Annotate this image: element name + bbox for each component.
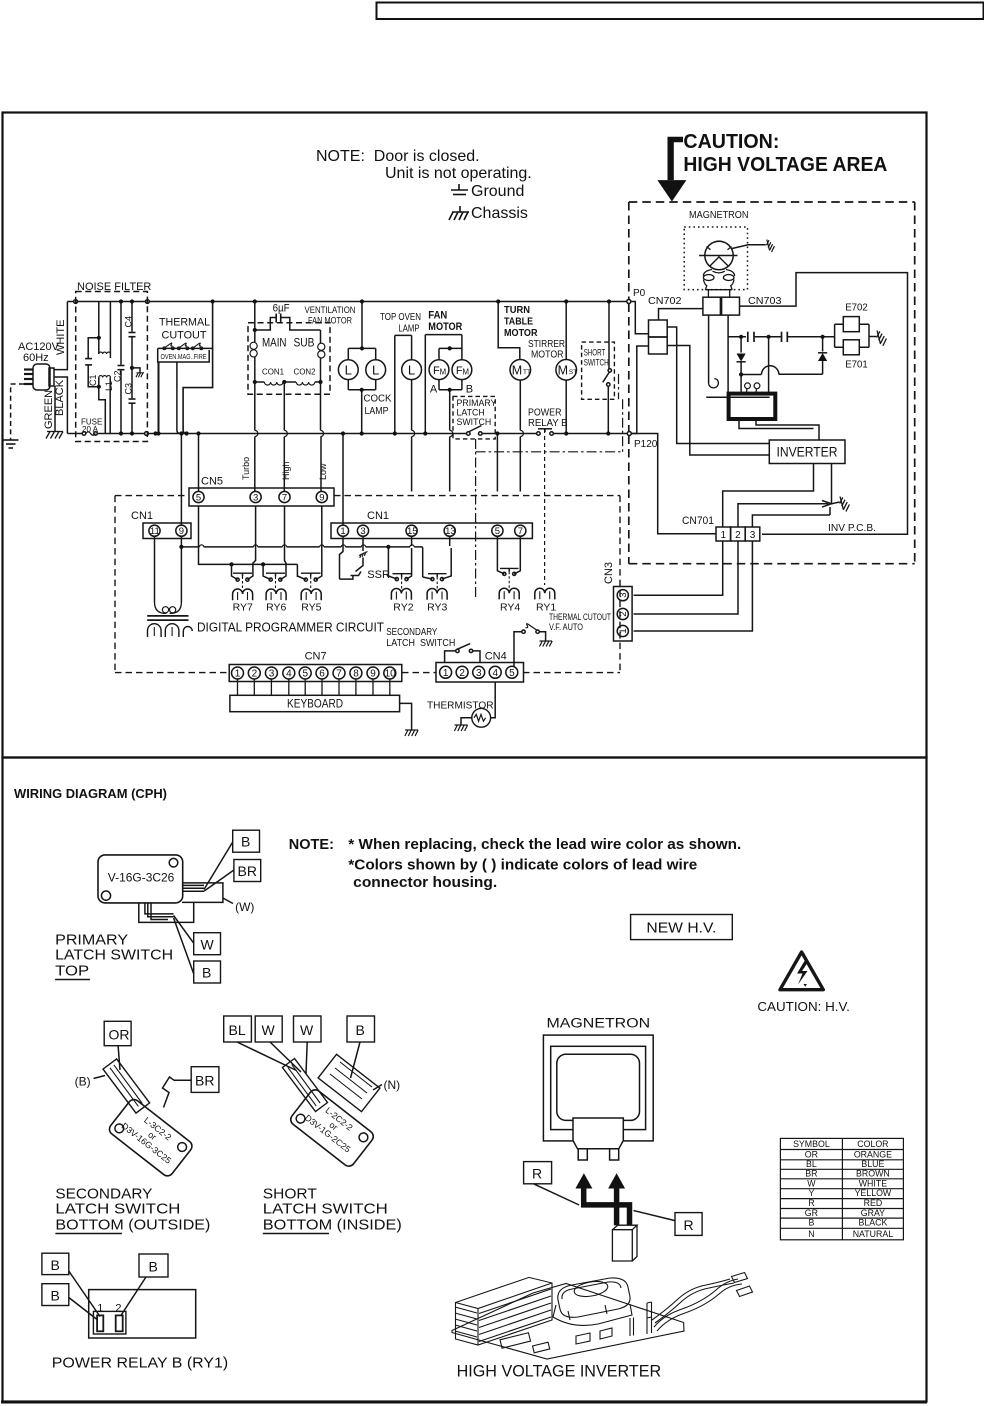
pin 3 [250, 491, 261, 502]
svg-text:VENTILATION: VENTILATION [305, 305, 356, 316]
pin 13 [444, 525, 455, 536]
svg-text:3: 3 [253, 493, 258, 504]
wires CN702 right to inverter [667, 327, 769, 444]
SSR [359, 552, 368, 558]
primary latch switch contacts in series with bus [467, 432, 471, 436]
magnetron outer case [543, 1035, 653, 1141]
lower wire with jump [741, 366, 823, 375]
svg-text:RY2: RY2 [393, 602, 413, 614]
capacitor C1 [98, 302, 100, 338]
pin 7 [515, 525, 526, 536]
capacitor C3 [131, 368, 133, 398]
svg-text:NATURAL: NATURAL [853, 1229, 894, 1239]
noise filter dashed box [76, 292, 148, 442]
wire relay B coil dashed link [544, 429, 546, 585]
wire P0 to CN702 [631, 302, 649, 334]
svg-text:THERMAL: THERMAL [159, 317, 210, 329]
svg-text:BOTTOM (INSIDE): BOTTOM (INSIDE) [263, 1217, 402, 1234]
pin 2 [116, 1315, 123, 1331]
svg-text:3: 3 [618, 593, 629, 598]
svg-text:BL: BL [229, 1022, 246, 1038]
label box W [194, 933, 221, 955]
keyboard ground wire [400, 703, 412, 729]
svg-text:7: 7 [336, 669, 342, 680]
svg-text:OR: OR [805, 1149, 818, 1159]
thick bottom rule [1, 1401, 927, 1404]
top bus [67, 301, 73, 303]
wire connectors [732, 1273, 748, 1283]
svg-text:M: M [512, 364, 522, 378]
output wires [654, 1279, 738, 1327]
pin 10 [384, 667, 396, 679]
svg-text:5: 5 [495, 526, 500, 537]
motor MTT [510, 360, 531, 381]
label box OR [104, 1021, 131, 1045]
svg-text:1: 1 [618, 628, 629, 633]
svg-text:2: 2 [115, 1303, 121, 1315]
svg-text:LAMP: LAMP [365, 405, 389, 417]
short latch switch arm [283, 1059, 328, 1112]
svg-text:P0: P0 [633, 288, 646, 299]
chassis (VF auto) [540, 641, 553, 647]
wire CN703 right to inv pcb right rail [740, 273, 908, 535]
pin 3 [473, 666, 485, 678]
PRIMARY LATCH SWITCH TOP label [55, 932, 173, 980]
relay RY1 coil [535, 588, 555, 599]
pin 2 [248, 667, 260, 679]
svg-text:7: 7 [282, 493, 287, 504]
svg-text:FAN: FAN [428, 310, 447, 322]
label box B (relay 3) [139, 1254, 168, 1277]
connector CON1 [253, 380, 257, 384]
HV transformer (bold box) [729, 394, 776, 419]
AC source label [18, 341, 60, 364]
pin 4 [489, 666, 501, 678]
lamp L (cook 1) [338, 360, 358, 380]
capacitor 6uF [253, 299, 257, 303]
svg-text:W: W [262, 1022, 276, 1038]
svg-text:W: W [300, 1022, 314, 1038]
leader to B [204, 842, 233, 890]
transformer block [558, 1278, 630, 1317]
svg-text:MAGNETRON: MAGNETRON [689, 210, 749, 221]
svg-text:4: 4 [493, 668, 499, 679]
wire CON drops to CN5 with bus jumps [254, 382, 256, 492]
svg-text:L: L [408, 363, 415, 378]
relay RY6 [280, 506, 286, 580]
keyboard ties [238, 679, 390, 695]
wire bus to CN1R pin 1 [342, 434, 344, 526]
PRIMARY LATCH SWITCH dashed box [453, 396, 495, 439]
dashed earth wire from plug [11, 384, 24, 440]
svg-text:B: B [241, 834, 250, 850]
svg-text:5: 5 [509, 668, 515, 679]
svg-text:MAIN: MAIN [262, 336, 287, 350]
svg-text:L: L [345, 363, 352, 378]
pin 7 [333, 667, 345, 679]
black wire [54, 377, 67, 434]
inductor L1 [109, 302, 111, 355]
svg-text:DIGITAL PROGRAMMER CIRCUIT: DIGITAL PROGRAMMER CIRCUIT [197, 621, 384, 635]
svg-text:1: 1 [721, 530, 727, 541]
svg-text:GRAY: GRAY [861, 1208, 885, 1218]
(W) label [223, 898, 233, 904]
label box B (relay 2) [42, 1284, 69, 1306]
AC plug [24, 364, 54, 390]
svg-text:GR: GR [805, 1208, 818, 1218]
thermal cutout body box [158, 348, 213, 362]
SHORT LATCH SWITCH BOTTOM label [263, 1186, 402, 1234]
lamp L (top oven) [402, 360, 422, 380]
svg-text:2: 2 [735, 530, 741, 541]
svg-text:TOP: TOP [55, 963, 89, 980]
svg-text:RED: RED [864, 1198, 883, 1208]
feedthrough E701 [843, 340, 859, 355]
THERMAL CUTOUT label [159, 317, 210, 342]
turn table motor feed [496, 299, 500, 303]
svg-text:M: M [462, 368, 469, 377]
svg-text:LATCH: LATCH [457, 408, 485, 418]
pin 8 [350, 667, 362, 679]
motor MST [556, 360, 577, 381]
svg-text:6µF: 6µF [273, 303, 290, 315]
TOP OVEN LAMP label [380, 311, 421, 335]
magnetron dotted box [684, 227, 747, 290]
diode D2 [822, 337, 824, 352]
svg-text:TURN: TURN [504, 304, 530, 316]
svg-text:B: B [149, 1259, 158, 1275]
svg-text:RY6: RY6 [266, 602, 286, 614]
svg-text:L: L [372, 363, 379, 378]
node P0 [627, 300, 631, 304]
svg-text:COCK: COCK [364, 393, 392, 405]
caution arrow [668, 137, 684, 180]
label box B (bottom) [194, 961, 221, 983]
svg-text:E701: E701 [845, 360, 868, 371]
svg-text:B: B [356, 1022, 365, 1038]
label box R (right) [675, 1213, 702, 1236]
svg-text:ORANGE: ORANGE [854, 1149, 892, 1159]
leader to R right [634, 1211, 676, 1221]
wire CN701-3 up right [752, 515, 830, 527]
relay RY5 [316, 506, 322, 580]
svg-text:CUTOUT: CUTOUT [162, 330, 207, 342]
header box top right [377, 3, 984, 20]
svg-text:2: 2 [252, 669, 258, 680]
stirrer motor feed [564, 299, 568, 303]
leader to B (bottom) [174, 918, 194, 974]
svg-text:C2: C2 [113, 370, 123, 382]
ground legend symbol [451, 184, 468, 195]
wire bus to CN1L pin 9 [180, 434, 182, 526]
svg-text:3: 3 [750, 530, 756, 541]
green wire [54, 386, 56, 432]
secondary latch switch arm [103, 1059, 150, 1113]
svg-text:B: B [466, 384, 473, 396]
SUB winding [320, 330, 322, 343]
pin 5 [492, 525, 503, 536]
SECONDARY LATCH SWITCH BOTTOM label [55, 1186, 210, 1234]
svg-text:2: 2 [618, 611, 629, 616]
svg-text:R: R [808, 1198, 814, 1208]
pin 1 [97, 1315, 103, 1331]
connector CN3 [614, 587, 633, 642]
capacitor C4 [130, 299, 134, 303]
label box W (short 2) [294, 1016, 322, 1042]
svg-text:LAMP: LAMP [399, 323, 420, 335]
magnetron body [557, 1054, 640, 1120]
svg-text:2: 2 [459, 668, 465, 679]
magnetron plug [573, 1118, 623, 1149]
label box BL [224, 1016, 252, 1042]
white wire [54, 302, 67, 370]
svg-text:BR: BR [805, 1169, 817, 1179]
KEYBOARD box [230, 695, 400, 711]
svg-text:SWITCH: SWITCH [457, 417, 492, 427]
node C4/C3 to chassis [130, 366, 134, 370]
pin 2 [617, 608, 628, 619]
svg-text:SWITCH: SWITCH [584, 358, 609, 368]
pin 9 [176, 525, 187, 536]
svg-text:MOTOR: MOTOR [531, 349, 564, 361]
svg-text:OVEN.MAG..FIRE: OVEN.MAG..FIRE [161, 352, 207, 361]
svg-text:C4: C4 [124, 316, 134, 328]
magnetron tube [705, 241, 733, 269]
pin 11 [149, 525, 160, 536]
svg-text:FAN MOTOR: FAN MOTOR [308, 316, 352, 327]
fan motor bracket [425, 335, 462, 360]
svg-text:W: W [807, 1178, 816, 1188]
svg-text:10: 10 [385, 669, 397, 680]
ventilation motor dashed box [248, 323, 330, 395]
motor FM B [452, 360, 472, 380]
svg-text:NOTE: Door is closed.: NOTE: Door is closed. [316, 148, 480, 165]
wire CN4-4 to thermistor [491, 682, 496, 718]
BR bent wire [163, 1077, 192, 1108]
svg-text:V-16G-3C26: V-16G-3C26 [108, 873, 175, 885]
cook lamp pair [360, 299, 364, 303]
svg-text:(B): (B) [75, 1075, 91, 1089]
svg-text:13: 13 [445, 526, 456, 537]
svg-text:PRIMARY: PRIMARY [457, 398, 497, 408]
chassis legend symbol [449, 206, 469, 220]
svg-text:SSR: SSR [367, 569, 390, 581]
connector CN702 [649, 320, 668, 337]
door linkage chain line [476, 374, 623, 600]
svg-text:9: 9 [179, 526, 184, 537]
svg-text:MAGNETRON: MAGNETRON [547, 1016, 651, 1031]
svg-text:LATCH SWITCH: LATCH SWITCH [55, 947, 173, 964]
svg-text:COLOR: COLOR [857, 1139, 888, 1149]
svg-text:R: R [684, 1217, 694, 1233]
thermal cutout right lead from top bus [211, 299, 215, 303]
wires transformer to inverter [739, 421, 819, 440]
leader OR to arm [118, 1046, 120, 1070]
svg-text:BR: BR [195, 1073, 214, 1089]
relay RY4 [497, 536, 504, 574]
thick red wires with arrows [584, 1188, 630, 1225]
svg-text:WIRING DIAGRAM (CPH): WIRING DIAGRAM (CPH) [14, 786, 167, 801]
svg-text:C3: C3 [124, 383, 134, 395]
note block [316, 148, 532, 222]
CON1 CON2 labels [262, 367, 316, 377]
svg-text:CN1: CN1 [367, 510, 389, 522]
svg-text:* When replacing, check the le: * When replacing, check the lead wire co… [348, 837, 741, 853]
capacitor C2 [119, 299, 123, 303]
svg-text:YELLOW: YELLOW [855, 1188, 892, 1198]
relay RY2 [407, 536, 412, 579]
pin 5 [299, 667, 311, 679]
svg-text:9: 9 [319, 493, 324, 504]
wire CN702 top to CN703 [659, 309, 703, 320]
POWER RELAY B label [528, 407, 568, 430]
svg-text:CN7: CN7 [305, 651, 327, 663]
FAN MOTOR label [428, 310, 462, 334]
svg-text:CN1: CN1 [131, 510, 153, 522]
connector CN703 [703, 297, 721, 315]
bottom bus [67, 433, 82, 435]
pin 1 [232, 667, 244, 679]
svg-text:Unit is not operating.: Unit is not operating. [385, 165, 532, 182]
label box R (left) [524, 1162, 552, 1184]
motor FM A [429, 360, 449, 380]
pin 1 [337, 525, 348, 536]
secondary latch switch [456, 649, 459, 652]
svg-text:CN3: CN3 [603, 562, 615, 584]
svg-text:RY4: RY4 [500, 602, 520, 614]
svg-text:MOTOR: MOTOR [428, 321, 462, 333]
svg-text:OR: OR [109, 1027, 130, 1043]
svg-text:Low: Low [318, 463, 328, 480]
main schematic frame [3, 113, 927, 758]
svg-text:BLACK: BLACK [858, 1218, 887, 1228]
svg-text:RY5: RY5 [301, 602, 321, 614]
node P120 [627, 432, 631, 436]
svg-text:BL: BL [806, 1159, 817, 1169]
pin 3 [617, 590, 628, 601]
svg-text:3: 3 [476, 668, 482, 679]
svg-text:R: R [532, 1166, 542, 1182]
svg-text:LATCH SWITCH: LATCH SWITCH [263, 1201, 388, 1218]
wire bus to CN1 pin 5 [496, 434, 498, 492]
svg-text:BOTTOM (OUTSIDE): BOTTOM (OUTSIDE) [55, 1217, 210, 1234]
magnetron ground wire [732, 245, 766, 249]
svg-text:BR: BR [238, 863, 257, 879]
svg-text:HIGH VOLTAGE AREA: HIGH VOLTAGE AREA [683, 154, 887, 176]
relay leaders [69, 1271, 100, 1317]
svg-text:CN702: CN702 [648, 296, 682, 307]
svg-text:CON1: CON1 [262, 367, 284, 377]
connector CON2 [296, 382, 315, 385]
svg-text:TOP OVEN: TOP OVEN [380, 311, 421, 323]
svg-text:B: B [808, 1218, 814, 1228]
label box B (top) [233, 830, 260, 852]
svg-text:C1: C1 [88, 374, 98, 386]
CAUTION HIGH VOLTAGE AREA label [683, 131, 887, 176]
core line [706, 396, 769, 398]
svg-text:RELAY B: RELAY B [528, 417, 568, 429]
VENTILATION FAN MOTOR label [305, 305, 356, 327]
svg-text:TT: TT [523, 369, 531, 376]
svg-text:P120: P120 [634, 439, 658, 450]
svg-text:Turbo: Turbo [241, 457, 251, 480]
svg-text:4: 4 [286, 669, 292, 680]
MAIN / SUB labels [262, 336, 315, 350]
pin 5 [506, 666, 518, 678]
svg-text:5: 5 [196, 493, 201, 504]
svg-text:INV P.C.B.: INV P.C.B. [828, 523, 876, 534]
MAIN winding [254, 330, 256, 342]
primary latch switch body V-16G-3C26 [98, 855, 183, 903]
svg-text:V.F. AUTO: V.F. AUTO [549, 622, 583, 632]
svg-text:GREEN: GREEN [43, 390, 55, 429]
power relay B contacts in series with bus [537, 432, 541, 436]
short latch switch body [288, 1087, 375, 1168]
pin 6 [316, 667, 328, 679]
top oven lamp branch [395, 335, 412, 359]
svg-text:connector housing.: connector housing. [353, 875, 497, 891]
(N) housing [318, 1054, 380, 1111]
pin 7 [279, 491, 290, 502]
wire top oven lamp to CN1 pin 15 [411, 380, 413, 492]
high voltage area dashed box [629, 202, 915, 564]
right connector block [182, 883, 223, 903]
leader to BR [204, 870, 234, 891]
svg-text:B: B [51, 1288, 60, 1304]
pin 1 [617, 625, 628, 636]
svg-text:INVERTER: INVERTER [777, 445, 838, 460]
fuse F1 [82, 432, 86, 436]
digital programmer dashed box [115, 496, 620, 673]
label box B (short) [347, 1016, 375, 1042]
primary loops [745, 383, 760, 393]
pin 15 [406, 525, 417, 536]
leader from R [534, 1184, 580, 1205]
svg-text:TABLE: TABLE [504, 316, 533, 328]
svg-text:BROWN: BROWN [856, 1169, 890, 1179]
secondary latch switch body [107, 1097, 194, 1178]
svg-text:SYMBOL: SYMBOL [793, 1139, 830, 1149]
svg-text:W: W [201, 937, 215, 953]
svg-text:CON2: CON2 [294, 367, 316, 377]
svg-text:Ground: Ground [471, 183, 524, 200]
svg-text:3: 3 [360, 526, 365, 537]
caution H.V. triangle [780, 952, 823, 990]
chassis (E70x) [877, 331, 887, 346]
label box BR [234, 860, 261, 882]
thermal cutout left lead [158, 362, 160, 434]
lamp L (cook 2) [366, 360, 386, 380]
posts [647, 1302, 652, 1334]
TURN TABLE MOTOR label [504, 304, 538, 339]
small components [500, 1333, 531, 1348]
svg-text:20 A: 20 A [82, 425, 99, 434]
pin 3 [265, 667, 277, 679]
svg-text:LATCH SWITCH: LATCH SWITCH [386, 637, 455, 649]
svg-text:E702: E702 [845, 303, 868, 314]
pin 9 [316, 491, 327, 502]
wire cap node down to transformer [768, 337, 770, 393]
wire inverter to CN701-1 [723, 464, 814, 528]
thermal cutout box bottom lead [177, 362, 181, 434]
svg-text:BLACK: BLACK [54, 379, 66, 416]
svg-text:WHITE: WHITE [859, 1178, 887, 1188]
svg-text:9: 9 [370, 669, 376, 680]
svg-text:1: 1 [340, 526, 345, 537]
chassis (green wire) [46, 432, 63, 439]
svg-text:15: 15 [407, 526, 418, 537]
chassis (keyboard) [405, 730, 418, 736]
